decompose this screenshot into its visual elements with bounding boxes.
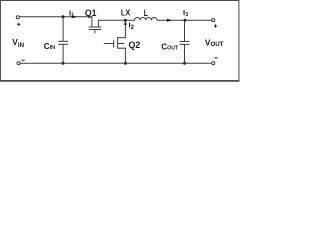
svg-text:CIN: CIN — [44, 42, 55, 51]
svg-text:Q1: Q1 — [85, 8, 97, 18]
capacitor COUT — [180, 20, 190, 63]
node VIN- terminal — [17, 62, 20, 65]
wire: LX to Q2 drain — [124, 20, 126, 37]
svg-text:LX: LX — [121, 8, 131, 18]
svg-text:I1: I1 — [69, 8, 74, 18]
wire: bottom rail — [20, 62, 211, 64]
node: COUT bottom junction — [183, 62, 186, 65]
current arrow I1 — [72, 15, 78, 18]
node: CIN bottom junction — [62, 62, 65, 65]
node VOUT+ terminal — [212, 19, 215, 22]
current arrow I3 — [167, 19, 172, 22]
border frame — [0, 0, 239, 1]
wire: input rail top — [19, 16, 92, 18]
svg-text:Q2: Q2 — [129, 40, 141, 50]
node: COUT top junction — [184, 19, 187, 22]
svg-text:VIN: VIN — [12, 37, 24, 49]
wire: output rail — [157, 19, 212, 21]
svg-text:COUT: COUT — [161, 42, 178, 52]
node: CIN top junction — [62, 15, 65, 18]
node LX junction — [124, 19, 127, 22]
svg-text:L: L — [144, 8, 148, 18]
plus sign (output) — [214, 24, 217, 27]
svg-text:I3: I3 — [183, 8, 188, 18]
wire: LX rail — [98, 19, 135, 21]
minus sign (input) — [21, 59, 24, 61]
node: Q2 source on bottom rail — [124, 62, 127, 65]
capacitor CIN — [58, 17, 68, 64]
plus sign (input) — [17, 23, 20, 26]
svg-text:VOUT: VOUT — [205, 37, 224, 47]
node VOUT- terminal — [212, 62, 215, 65]
minus sign (output) — [214, 57, 217, 59]
transistor Q1 — [89, 16, 102, 33]
current arrow I2 — [124, 21, 127, 24]
svg-text:I2: I2 — [129, 20, 135, 31]
transistor Q2 — [104, 37, 126, 63]
inductor L — [135, 17, 157, 20]
node VIN+ terminal — [16, 16, 19, 19]
